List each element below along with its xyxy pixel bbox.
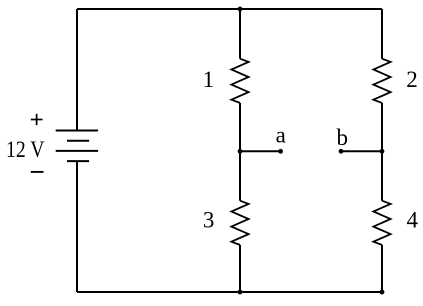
svg-text:a: a <box>276 123 286 148</box>
wire stub terminal b to right branch <box>341 150 382 152</box>
wire middle branch upper <box>239 9 241 59</box>
battery B1 long plate 2 <box>56 150 98 152</box>
node a branch junction <box>238 149 243 154</box>
svg-text:4: 4 <box>406 208 418 233</box>
node bottom right junction <box>380 290 385 295</box>
wire bottom rail <box>77 291 382 293</box>
resistor R4 <box>373 201 390 245</box>
node b branch junction <box>380 149 385 154</box>
minus sign of battery <box>31 171 44 173</box>
svg-text:b: b <box>336 125 348 150</box>
battery B1 short plate bottom <box>67 160 89 162</box>
wire right branch upper <box>381 9 383 59</box>
node bottom junction <box>238 290 243 295</box>
wire right branch between R2 and node b <box>381 103 383 151</box>
svg-text:3: 3 <box>203 207 215 232</box>
wire middle branch between node a and R3 <box>239 151 241 200</box>
wire top rail <box>77 8 382 10</box>
wire left rail lower (battery - to bottom rail) <box>76 161 78 292</box>
wire right branch lower <box>381 245 383 292</box>
terminal a dot <box>278 149 283 154</box>
svg-text:2: 2 <box>406 67 418 92</box>
resistor R3 <box>231 201 248 245</box>
terminal b dot <box>339 149 344 154</box>
node top junction <box>238 7 243 12</box>
svg-text:1: 1 <box>203 67 215 92</box>
plus sign of battery <box>31 114 43 125</box>
svg-text:12 V: 12 V <box>6 137 45 162</box>
battery B1 short plate 1 <box>67 140 89 142</box>
resistor R1 <box>231 59 248 103</box>
wire middle branch between R1 and node a <box>239 103 241 151</box>
wire right branch between node b and R4 <box>381 151 383 200</box>
wire left rail upper (battery + to top rail) <box>76 9 78 131</box>
battery B1 long plate top <box>56 130 98 132</box>
wire stub node to terminal a <box>240 150 281 152</box>
resistor R2 <box>373 59 390 103</box>
wire middle branch lower <box>239 245 241 292</box>
